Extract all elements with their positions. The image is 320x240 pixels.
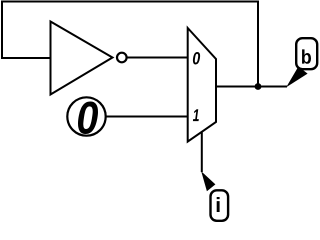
node junction dot on net b [255, 83, 262, 90]
mux M1 [188, 28, 216, 142]
port b label [302, 49, 311, 63]
inverter U1 (NOT gate triangle) [51, 22, 113, 95]
mux pin label 1 [193, 109, 199, 121]
port i box [211, 190, 229, 221]
mux pin label 0 [193, 52, 200, 65]
constant 0 source [67, 97, 105, 135]
constant 0 value label [78, 101, 98, 134]
port i label [217, 197, 220, 212]
port i connector wedge [201, 171, 215, 191]
port b connector wedge [286, 67, 307, 88]
port b box [296, 38, 317, 69]
wire mux output to port b [216, 86, 287, 88]
wire mux select [201, 132, 203, 172]
wire constant to mux input 1 [107, 116, 189, 118]
wire inverter output to mux input 0 [127, 57, 189, 59]
inverter output bubble [117, 53, 127, 63]
wire feedback net b: from output junction up, across top, down left, into inverter input [2, 2, 258, 87]
